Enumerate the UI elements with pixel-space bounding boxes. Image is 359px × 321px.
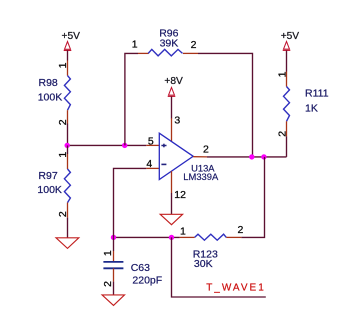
- svg-text:2: 2: [102, 281, 114, 287]
- pin stub U13A.3: [171, 118, 173, 141]
- wire R98 to node: [67, 124, 69, 146]
- junction dot (output/feedback): [249, 154, 254, 159]
- pin stub R96.1: [138, 52, 149, 54]
- wire +8V to op-amp pin3: [171, 97, 173, 119]
- wire C63 to ground: [113, 282, 115, 295]
- wire output node: [207, 156, 287, 158]
- junction dot (output/R123 branch): [261, 154, 266, 159]
- wire +5V to R98: [67, 50, 69, 60]
- capacitor C63: [103, 262, 123, 268]
- svg-text:3: 3: [174, 114, 180, 126]
- svg-text:1: 1: [180, 225, 186, 237]
- pin stub U13A.2 output: [193, 156, 207, 158]
- wire T_WAVE1 net: [172, 237, 266, 297]
- resistor R111: [284, 87, 290, 122]
- svg-text:T_WAVE1: T_WAVE1: [206, 283, 266, 294]
- svg-text:LM339A: LM339A: [183, 171, 219, 182]
- svg-text:1: 1: [57, 62, 69, 68]
- svg-text:+5V: +5V: [62, 31, 81, 42]
- svg-text:+5V: +5V: [281, 31, 300, 42]
- svg-text:39K: 39K: [160, 38, 179, 50]
- pin stub R123.2: [226, 236, 241, 238]
- svg-text:100K: 100K: [38, 92, 63, 104]
- pin stub R98.2: [67, 110, 69, 123]
- wire R97 to ground: [67, 218, 69, 238]
- svg-text:1: 1: [132, 39, 138, 51]
- wire pin12 to ground: [171, 193, 173, 214]
- op-amp minus input mark: [161, 163, 166, 165]
- svg-text:1K: 1K: [305, 103, 318, 115]
- svg-text:12: 12: [174, 189, 186, 201]
- svg-text:1: 1: [102, 250, 114, 256]
- ground (below R97): [56, 238, 79, 249]
- pin stub R97.2: [67, 203, 69, 218]
- wire output down to R123: [241, 157, 264, 238]
- svg-text:100K: 100K: [37, 184, 62, 196]
- wire +5V to R111: [286, 51, 288, 72]
- svg-text:220pF: 220pF: [132, 274, 162, 286]
- svg-text:R98: R98: [39, 77, 58, 89]
- svg-text:R111: R111: [305, 88, 329, 100]
- op-amp plus input mark: [161, 144, 166, 148]
- svg-text:2: 2: [276, 131, 288, 137]
- pin stub R96.2: [183, 52, 198, 54]
- svg-text:30K: 30K: [194, 258, 213, 270]
- svg-text:1: 1: [276, 71, 288, 77]
- svg-text:2: 2: [203, 143, 209, 155]
- resistor R98: [64, 76, 70, 111]
- svg-text:2: 2: [57, 211, 69, 217]
- svg-text:+8V: +8V: [164, 76, 183, 87]
- pin stub C63.2: [113, 268, 115, 281]
- wire R96 to output node: [198, 53, 253, 156]
- resistor R96: [148, 49, 182, 56]
- wire C63 node down: [113, 237, 115, 251]
- junction dot (T_WAVE1 tap): [169, 235, 174, 240]
- svg-text:R97: R97: [38, 170, 57, 182]
- power symbol +8V: [168, 87, 176, 96]
- wire feedback left riser (node to R96): [125, 53, 138, 145]
- pin stub U13A.5: [146, 144, 159, 146]
- pin stub R123.1: [180, 236, 195, 238]
- junction dot (R98/R97 node): [65, 143, 70, 148]
- power symbol +5V (left): [64, 42, 72, 51]
- wire node to op-amp +input: [68, 144, 147, 146]
- pin stub R111.1: [286, 72, 288, 87]
- wire bottom net (C63 node to R123): [114, 236, 180, 238]
- pin stub C63.1: [113, 251, 115, 262]
- svg-text:C63: C63: [131, 262, 150, 274]
- resistor R123: [195, 234, 227, 240]
- ground (below U13A pin 12): [160, 214, 182, 224]
- pin stub U13A.12: [171, 171, 173, 193]
- pin stub U13A.4: [146, 167, 159, 169]
- svg-text:4: 4: [146, 158, 152, 170]
- op-amp U13A triangle: [159, 133, 193, 179]
- power symbol +5V (right): [283, 41, 291, 50]
- junction dot (feedback tap): [122, 143, 127, 148]
- wire C63 node to op-amp -input: [114, 168, 147, 237]
- pin stub R111.2: [286, 121, 288, 136]
- wire node to R97: [67, 145, 69, 154]
- pin stub R98.1: [67, 61, 69, 76]
- junction dot (C63 node): [111, 235, 116, 240]
- svg-text:2: 2: [191, 39, 197, 51]
- resistor R97: [64, 169, 70, 203]
- svg-text:5: 5: [148, 135, 154, 147]
- pin stub R97.1: [67, 154, 69, 169]
- ground (below C63): [102, 295, 124, 306]
- wire R111 to output node: [286, 136, 288, 157]
- svg-text:2: 2: [238, 224, 244, 236]
